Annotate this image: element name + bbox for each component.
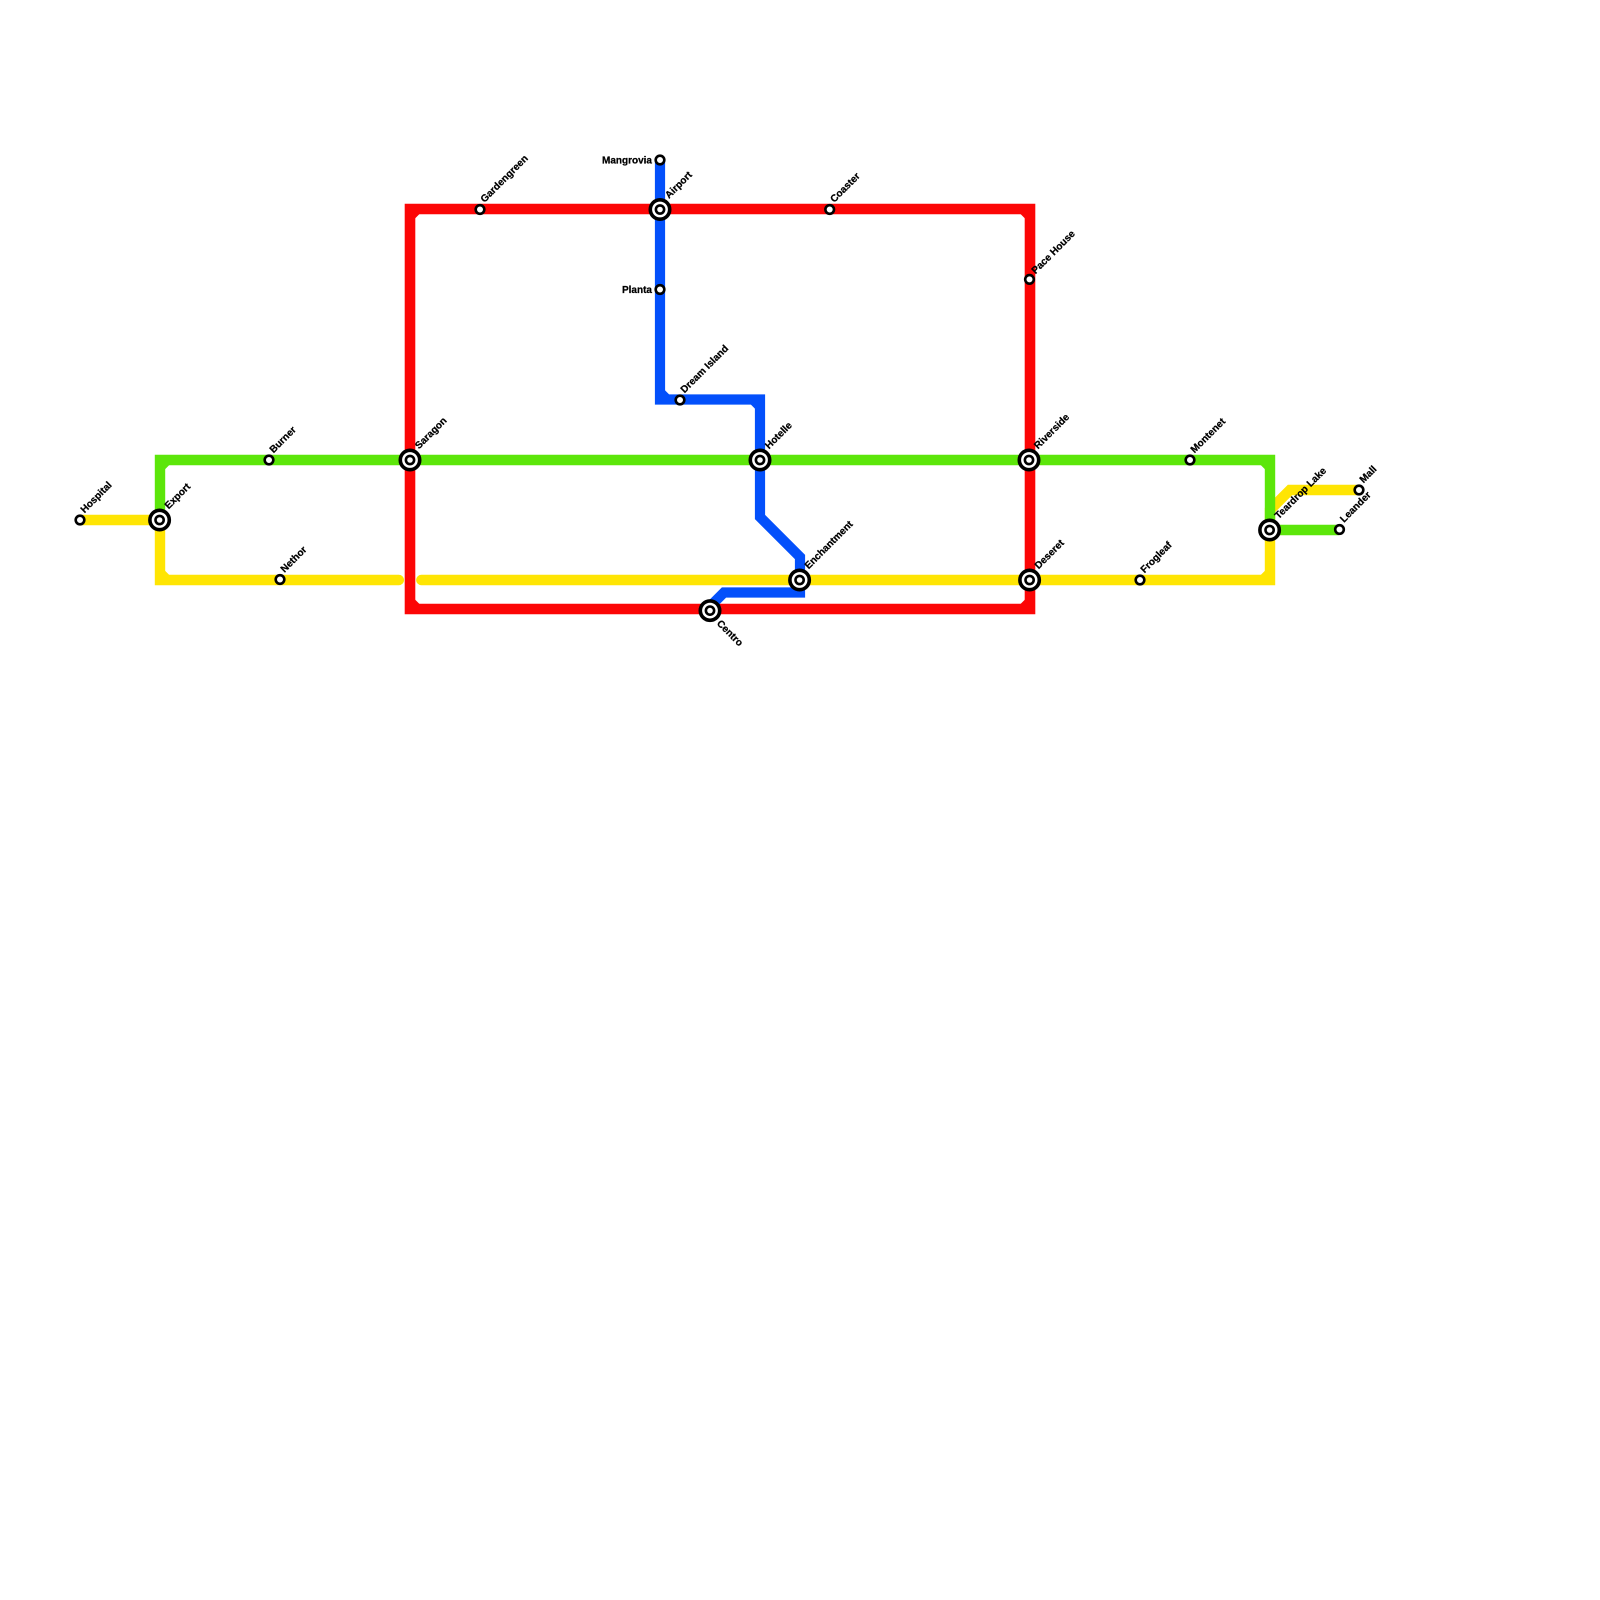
yellow corner chamfer (160,580) <box>160 573 167 580</box>
blue corner chamfer (800,592.5) <box>793 586 800 593</box>
interchange Teardrop Lake <box>1260 520 1279 539</box>
interchange Centro <box>700 601 719 620</box>
svg-text:Planta: Planta <box>622 285 652 296</box>
station Pace House <box>1025 275 1034 284</box>
interchange Hotelle <box>750 450 769 469</box>
interchange Export <box>150 510 169 529</box>
interchange Saragon <box>400 450 419 469</box>
station Dream Island <box>676 396 685 405</box>
yellow line red crossing-Mall <box>421 490 1359 580</box>
interchange Riverside <box>1019 450 1038 469</box>
red corner chamfer (1030,209) <box>1023 209 1030 216</box>
yellow line Hospital-red crossing <box>80 520 399 580</box>
station Coaster <box>825 205 834 214</box>
red corner chamfer (1030,609) <box>1023 602 1030 609</box>
station Leander <box>1335 525 1344 534</box>
station Mangrovia <box>656 156 665 165</box>
interchange Enchantment <box>790 570 809 589</box>
blue corner chamfer (760,399.5) <box>753 400 760 407</box>
green corner chamfer (160,460) <box>160 460 167 467</box>
station Mall <box>1355 486 1364 495</box>
interchange Deseret <box>1020 570 1039 589</box>
green corner chamfer (1270,460) <box>1263 460 1270 467</box>
yellow corner chamfer (1270,580) <box>1263 573 1270 580</box>
station Planta <box>656 285 665 294</box>
station Hospital <box>76 516 85 525</box>
svg-text:Mangrovia: Mangrovia <box>602 156 652 167</box>
station Burner <box>265 456 274 465</box>
blue line Mangrovia-Centro <box>660 160 800 611</box>
yellow corner chamfer (160,520) <box>153 520 160 527</box>
red corner chamfer (410,609) <box>410 602 417 609</box>
station Gardengreen <box>476 205 485 214</box>
green line Export-Leander <box>160 460 1339 530</box>
station Frogleaf <box>1136 576 1145 585</box>
blue corner chamfer (660,399.5) <box>660 393 667 400</box>
interchange Airport <box>650 200 669 219</box>
red loop line <box>410 209 1030 609</box>
station Montenet <box>1186 456 1195 465</box>
station Nethor <box>276 575 285 584</box>
red corner chamfer (410,209) <box>410 209 417 216</box>
